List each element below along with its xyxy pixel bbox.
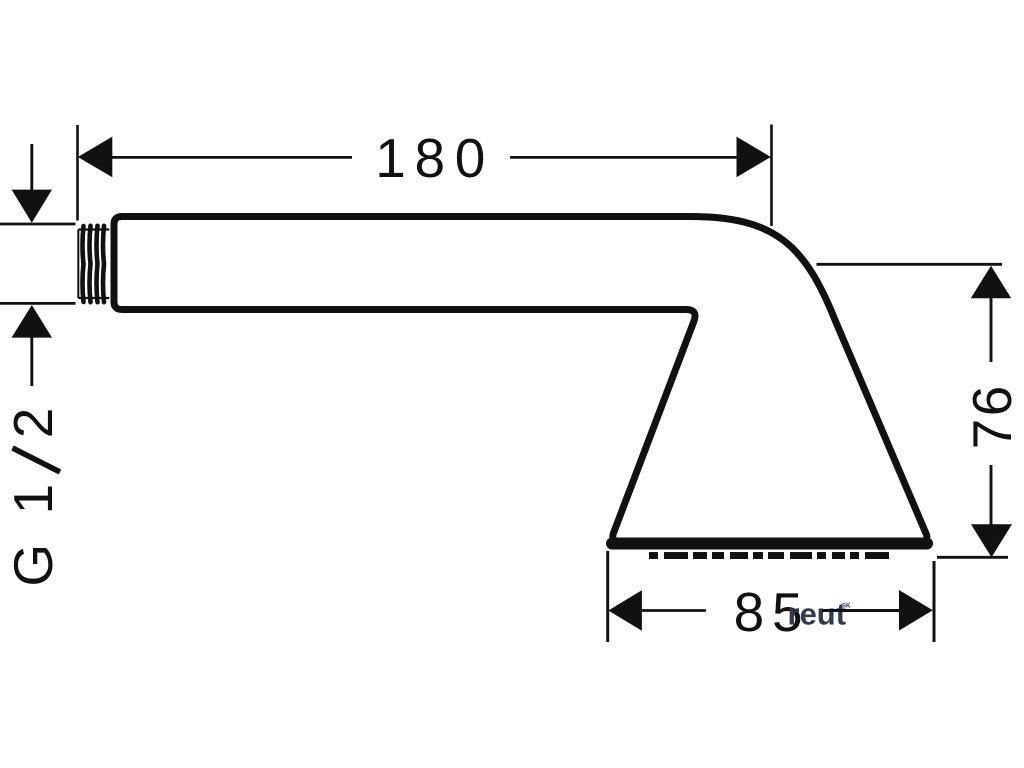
- dimension 85: value label: [734, 581, 803, 643]
- dimension 85: left arrowhead: [608, 590, 642, 631]
- svg-text:0: 0: [455, 127, 486, 189]
- svg-text:1: 1: [2, 484, 64, 515]
- thread diameter: down arrowhead: [12, 190, 52, 223]
- dimension 76: up arrowhead: [971, 266, 1011, 299]
- svg-text:SK: SK: [842, 604, 851, 610]
- thread diameter: up arrow stem: [30, 337, 33, 386]
- svg-text:2: 2: [2, 408, 64, 439]
- dimension 76: lower stem: [990, 465, 993, 525]
- thread label slash of G 1/2: [13, 448, 61, 472]
- thread label G 1/2: [2, 484, 64, 587]
- dimension 76: upper stem: [990, 298, 993, 362]
- dimension 180: dimension line: [111, 156, 740, 159]
- dimension 76: bottom reference line: [937, 556, 1008, 559]
- thread diameter: up arrowhead: [12, 305, 52, 338]
- bottom face plate of head: [612, 538, 927, 550]
- dimension 85: line over watermark: [822, 609, 902, 612]
- svg-text:6: 6: [961, 386, 1023, 417]
- dimension 85: right extension line: [933, 561, 936, 642]
- dimension 76: top reference line: [817, 263, 1003, 266]
- G 1/2 thread (left connector): [78, 226, 109, 302]
- thread diameter: down arrow stem: [30, 144, 33, 190]
- dimension 85: right arrowhead: [899, 590, 933, 631]
- dimension 76: value label: [961, 386, 1023, 450]
- shower head outline (arm + conical head): [114, 217, 927, 542]
- dimension 85: left extension line: [606, 551, 609, 642]
- svg-text:8: 8: [734, 581, 765, 643]
- svg-text:G: G: [2, 544, 64, 587]
- spray nozzle dashes: [649, 552, 893, 559]
- svg-text:7: 7: [961, 419, 1023, 450]
- thread diameter: lower reference line: [0, 302, 76, 305]
- dimension 85: dimension line segments: [640, 609, 706, 612]
- dimension 180: left arrowhead: [78, 137, 113, 178]
- dimension 180: left extension line: [76, 125, 79, 221]
- svg-text:1: 1: [375, 127, 406, 189]
- dimension 180: right extension line: [770, 125, 773, 227]
- dimension 76: down arrowhead: [971, 524, 1012, 557]
- dimension 180: right arrowhead: [737, 137, 771, 178]
- thread diameter: upper reference line: [0, 223, 76, 226]
- dimension 180: value label: [375, 127, 485, 189]
- svg-text:reut: reut: [788, 597, 847, 632]
- svg-text:8: 8: [415, 127, 446, 189]
